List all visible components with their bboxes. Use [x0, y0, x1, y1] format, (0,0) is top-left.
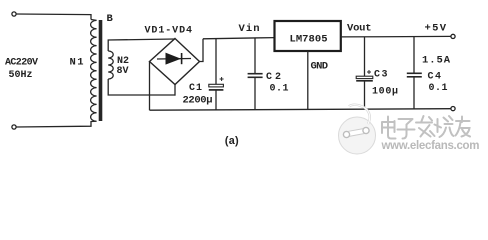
- svg-text:Vout: Vout: [347, 22, 372, 34]
- capacitor C2 bottom lead: [254, 77, 256, 110]
- watermark logo swoosh: [349, 105, 370, 124]
- terminal J3 +5V output: [451, 34, 455, 38]
- wire node B : secondary top to bridge top vertex: [108, 39, 175, 51]
- capacitor C1 top lead: [215, 39, 217, 85]
- svg-text:8V: 8V: [117, 66, 129, 77]
- capacitor C3 negative plate: [356, 80, 373, 82]
- svg-text:C4: C4: [428, 72, 442, 83]
- svg-text:(a): (a): [224, 136, 241, 148]
- capacitor C2 plates: [248, 73, 263, 75]
- svg-text:+5V: +5V: [425, 22, 447, 34]
- svg-text:100µ: 100µ: [372, 86, 398, 97]
- wire +V rail from regulator to +5V terminal: [341, 35, 451, 38]
- capacitor C3 bottom lead: [364, 81, 366, 110]
- svg-text:C3: C3: [374, 69, 388, 80]
- char zi: [398, 119, 415, 139]
- wire ground rail: [150, 109, 451, 111]
- char you: [456, 117, 471, 137]
- svg-text:C2: C2: [266, 72, 281, 83]
- svg-text:0.1: 0.1: [429, 83, 448, 94]
- svg-text:2200µ: 2200µ: [183, 94, 213, 106]
- transformer core: [99, 20, 103, 121]
- watermark logo pads: [343, 131, 349, 137]
- svg-text:Vin: Vin: [239, 23, 260, 35]
- capacitor C3 positive plate (hollow): [356, 76, 373, 78]
- svg-text:1.5A: 1.5A: [422, 54, 451, 66]
- svg-text:GND: GND: [311, 60, 329, 72]
- transformer primary winding N1: [91, 20, 97, 122]
- capacitor C4 bottom lead: [413, 77, 415, 109]
- svg-text:VD1-VD4: VD1-VD4: [145, 26, 193, 37]
- regulator GND pin lead: [307, 51, 309, 110]
- terminal J1 AC input top: [12, 12, 16, 16]
- char fa: [416, 116, 435, 137]
- svg-text:LM7805: LM7805: [290, 33, 328, 45]
- char dian: [382, 117, 396, 139]
- regulator U1 LM7805 box: [275, 21, 341, 51]
- svg-text:C1: C1: [189, 83, 202, 94]
- terminal J4 ground output: [451, 107, 455, 111]
- svg-text:www.elecfans.com: www.elecfans.com: [381, 140, 480, 152]
- wire +V rail from bridge to regulator: [203, 38, 275, 39]
- wire bridge right vertex jog up to +V rail: [200, 39, 204, 62]
- wire from primary bottom to J2: [16, 121, 91, 127]
- capacitor C2 top lead: [254, 38, 256, 73]
- watermark chinese characters dianzifashaoyou: [382, 116, 470, 139]
- svg-text:50Hz: 50Hz: [9, 70, 33, 81]
- svg-text:B: B: [107, 13, 114, 25]
- svg-text:AC220V: AC220V: [5, 58, 38, 69]
- capacitor C1 bottom lead: [215, 90, 217, 110]
- capacitor C1 polarity plus mark: [220, 77, 224, 81]
- transformer secondary winding N2: [108, 51, 113, 79]
- wire bridge left vertex down to ground rail: [149, 62, 151, 111]
- watermark logo pad track: [349, 131, 365, 134]
- capacitor C1 negative plate: [209, 89, 224, 91]
- capacitor C4 top lead: [413, 37, 415, 74]
- bridge internal diode cathode bar: [181, 53, 183, 64]
- capacitor C1 positive plate (hollow): [209, 84, 224, 87]
- wire secondary bottom to bridge bottom stub: [108, 79, 175, 95]
- svg-text:N1: N1: [70, 57, 84, 69]
- capacitor C3 top lead: [364, 37, 366, 76]
- bridge internal diode lead: [157, 58, 191, 61]
- svg-text:0.1: 0.1: [270, 83, 289, 94]
- wire from J1 to transformer primary top: [16, 14, 91, 20]
- wire bridge bottom vertex stub: [174, 85, 176, 96]
- capacitor C4 plates: [407, 72, 422, 74]
- bridge internal diode triangle: [166, 53, 182, 65]
- char shao: [435, 116, 454, 137]
- watermark logo disc: [339, 105, 376, 154]
- terminal J2 AC input bottom: [12, 125, 16, 129]
- capacitor C3 polarity plus mark: [367, 70, 371, 74]
- bridge rectifier VD1-VD4 diamond: [150, 39, 200, 85]
